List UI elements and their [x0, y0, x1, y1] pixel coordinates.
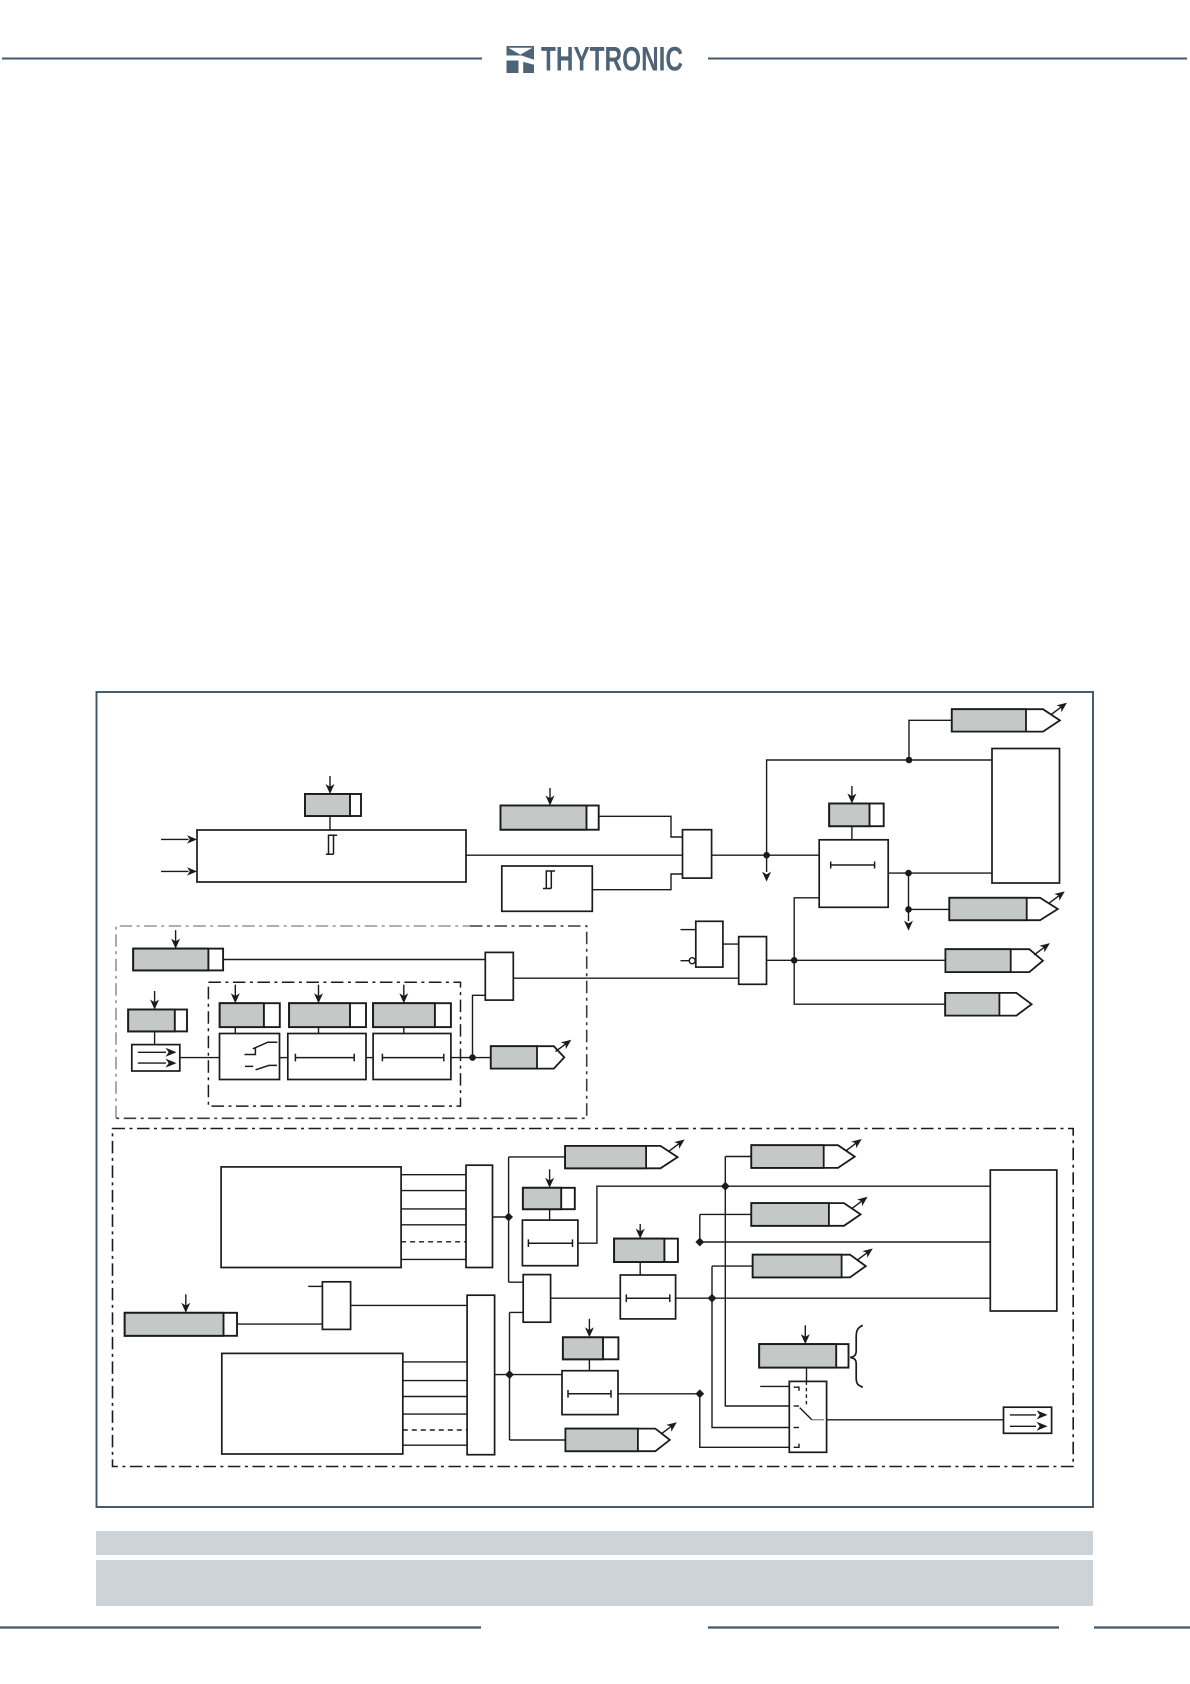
svg-text:THYTRONIC: THYTRONIC: [541, 41, 683, 79]
